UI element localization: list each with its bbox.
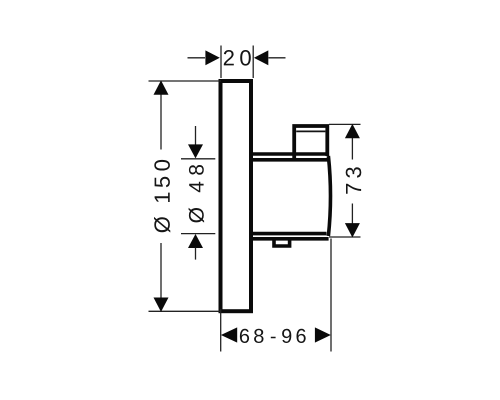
dimension 73: value label <box>346 167 362 194</box>
escutcheon plate <box>221 81 252 311</box>
dimension 20: left extension line <box>220 46 222 79</box>
dimension 73: top extension line <box>329 123 361 125</box>
dimension O48: lower tail <box>195 248 197 260</box>
bottom clip notch <box>274 239 290 246</box>
dimension O150: lower dim line <box>160 243 162 298</box>
dimension O150: top extension line <box>149 80 222 82</box>
dimension O150: upper dim line <box>160 95 162 150</box>
dimension 20: right leader tail <box>269 57 286 59</box>
valve body top edge upper line <box>251 152 327 156</box>
stop knob rectangle <box>294 126 327 159</box>
dimension 73: down arrow <box>345 223 360 237</box>
dimension O150: value label <box>154 160 170 233</box>
dimension 73: bottom extension line <box>329 236 361 238</box>
dimension O150: up arrow <box>154 80 169 94</box>
valve body right edge arc <box>328 156 330 236</box>
dimension O150: bottom extension line <box>149 310 222 312</box>
dimension 20: left arrow <box>205 50 219 65</box>
dimension O48: lower up arrow <box>188 234 203 248</box>
dimension 68-96: left arrow <box>221 327 237 342</box>
valve body top edge lower line <box>251 158 329 162</box>
dimension O48: upper tail <box>195 126 197 145</box>
dimension 68-96: value label <box>240 329 306 343</box>
dimension 20: value label <box>224 50 251 66</box>
dimension 73: up arrow <box>345 124 360 138</box>
dimension 20: right extension line <box>252 46 254 79</box>
dimension 20: left leader tail <box>188 57 206 59</box>
dimension O48: value label <box>189 165 205 223</box>
dimension 68-96: left extension line <box>220 309 222 352</box>
dimension O48: top tick <box>181 158 215 160</box>
dimension O48: bottom tick <box>181 233 215 235</box>
dimension 20: right arrow <box>254 50 268 65</box>
valve body bottom edge lower line <box>251 237 329 241</box>
dimension 73: lower dim line <box>351 204 353 224</box>
stop knob cap seam line <box>296 130 325 132</box>
dimension O48: upper down arrow <box>188 144 203 158</box>
dimension 68-96: right arrow <box>315 327 331 342</box>
dimension 68-96: right extension line <box>330 239 332 352</box>
dimension O150: down arrow <box>154 298 169 312</box>
valve body bottom edge upper line <box>251 232 327 236</box>
dimension 73: upper dim line <box>351 138 353 160</box>
